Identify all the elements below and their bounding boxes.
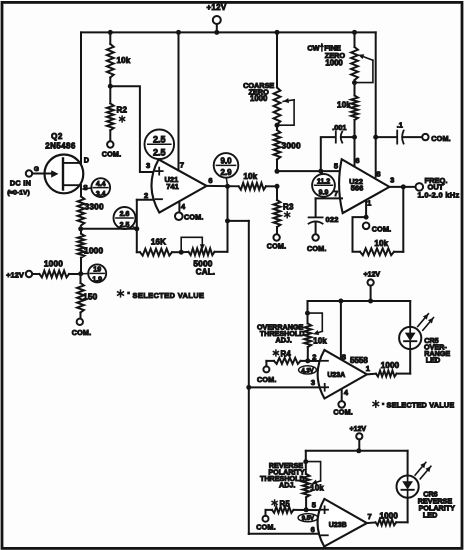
svg-text:6: 6 bbox=[208, 176, 212, 185]
svg-text:U23B: U23B bbox=[329, 522, 347, 529]
svg-text:1000: 1000 bbox=[325, 59, 343, 68]
svg-text:2.5: 2.5 bbox=[153, 135, 166, 145]
svg-text:8: 8 bbox=[342, 352, 346, 361]
svg-text:COM.: COM. bbox=[307, 244, 327, 253]
svg-text:COM.: COM. bbox=[102, 150, 122, 159]
svg-text:8: 8 bbox=[376, 169, 380, 178]
svg-text:R5: R5 bbox=[280, 499, 291, 508]
svg-text:1000: 1000 bbox=[84, 246, 103, 256]
svg-text:2.9: 2.9 bbox=[220, 168, 232, 177]
svg-text:022: 022 bbox=[326, 215, 339, 224]
svg-text:7: 7 bbox=[368, 512, 372, 521]
svg-text:R2: R2 bbox=[117, 106, 128, 115]
svg-text:.1: .1 bbox=[397, 121, 403, 130]
svg-text:COM.: COM. bbox=[431, 134, 451, 143]
svg-text:CW: CW bbox=[307, 43, 319, 52]
svg-text:3000: 3000 bbox=[282, 141, 301, 151]
svg-text:.001: .001 bbox=[332, 123, 346, 132]
svg-text:6: 6 bbox=[311, 525, 315, 534]
svg-text:+12V: +12V bbox=[6, 271, 24, 280]
svg-text:566: 566 bbox=[351, 183, 364, 192]
svg-text:(≈0-1V): (≈0-1V) bbox=[7, 190, 30, 197]
svg-text:741: 741 bbox=[166, 182, 179, 191]
svg-text:COM.: COM. bbox=[72, 328, 92, 337]
svg-text:+12V: +12V bbox=[350, 426, 367, 433]
svg-text:1000: 1000 bbox=[250, 94, 268, 103]
svg-text:7: 7 bbox=[180, 161, 184, 170]
svg-text:11.2: 11.2 bbox=[317, 179, 330, 186]
svg-text:SELECTED VALUE: SELECTED VALUE bbox=[387, 401, 455, 410]
svg-text:+12V: +12V bbox=[206, 3, 226, 12]
svg-text:4: 4 bbox=[344, 388, 349, 397]
svg-text:10k: 10k bbox=[374, 239, 388, 248]
svg-text:9.5V: 9.5V bbox=[302, 516, 314, 522]
svg-text:9.0: 9.0 bbox=[220, 157, 232, 166]
svg-text:R3: R3 bbox=[283, 203, 294, 212]
svg-text:3: 3 bbox=[311, 378, 315, 387]
svg-text:4.3V: 4.3V bbox=[301, 368, 313, 374]
svg-text:Q2: Q2 bbox=[51, 132, 63, 141]
svg-text:5: 5 bbox=[312, 501, 316, 510]
svg-text:3.4: 3.4 bbox=[96, 191, 106, 198]
svg-text:3: 3 bbox=[146, 161, 150, 170]
svg-text:LED: LED bbox=[423, 511, 437, 520]
svg-text:19: 19 bbox=[93, 267, 101, 274]
svg-text:COM.: COM. bbox=[267, 242, 287, 251]
svg-text:R4: R4 bbox=[281, 350, 292, 359]
svg-text:1000: 1000 bbox=[381, 361, 400, 370]
svg-text:2.6: 2.6 bbox=[120, 211, 130, 218]
svg-text:3300: 3300 bbox=[85, 202, 104, 212]
svg-text:10k: 10k bbox=[310, 484, 324, 493]
svg-text:CAL.: CAL. bbox=[196, 268, 215, 277]
svg-text:DC IN: DC IN bbox=[10, 179, 31, 188]
svg-text:2.5: 2.5 bbox=[153, 147, 166, 157]
svg-text:ADJ.: ADJ. bbox=[279, 481, 295, 490]
svg-text:2: 2 bbox=[144, 191, 148, 200]
svg-text:SELECTED VALUE: SELECTED VALUE bbox=[133, 291, 205, 300]
svg-text:2N5486: 2N5486 bbox=[45, 142, 76, 151]
svg-text:10k: 10k bbox=[337, 100, 351, 109]
svg-text:6: 6 bbox=[355, 156, 359, 165]
svg-text:16K: 16K bbox=[151, 238, 166, 247]
svg-text:1000: 1000 bbox=[379, 511, 398, 520]
svg-text:COM.: COM. bbox=[372, 224, 392, 233]
svg-text:COM.: COM. bbox=[333, 407, 353, 416]
svg-text:150: 150 bbox=[83, 292, 98, 302]
svg-text:+12V: +12V bbox=[364, 271, 381, 278]
svg-text:1.0-2.0 kHz: 1.0-2.0 kHz bbox=[418, 190, 460, 199]
svg-text:9.9: 9.9 bbox=[319, 190, 329, 197]
svg-text:U23A: U23A bbox=[327, 372, 345, 379]
svg-text:COM.: COM. bbox=[184, 213, 204, 222]
svg-text:10k: 10k bbox=[243, 172, 257, 181]
svg-text:COM.: COM. bbox=[257, 375, 277, 384]
svg-text:LED: LED bbox=[426, 356, 440, 365]
svg-text:10k: 10k bbox=[117, 56, 131, 65]
svg-text:3: 3 bbox=[390, 176, 394, 185]
svg-text:4: 4 bbox=[181, 202, 186, 211]
svg-text:COM.: COM. bbox=[256, 523, 276, 532]
svg-text:1000: 1000 bbox=[44, 259, 63, 269]
svg-text:1: 1 bbox=[366, 364, 370, 373]
svg-text:10k: 10k bbox=[313, 336, 327, 345]
svg-text:2: 2 bbox=[312, 352, 316, 361]
svg-text:ADJ.: ADJ. bbox=[276, 336, 292, 345]
svg-text:G: G bbox=[34, 166, 39, 173]
svg-text:D: D bbox=[84, 158, 89, 165]
svg-text:1.9: 1.9 bbox=[92, 276, 102, 283]
svg-text:1: 1 bbox=[367, 199, 371, 208]
svg-text:5: 5 bbox=[334, 162, 338, 171]
svg-text:4.4: 4.4 bbox=[96, 181, 106, 188]
svg-text:2.5: 2.5 bbox=[120, 222, 130, 229]
